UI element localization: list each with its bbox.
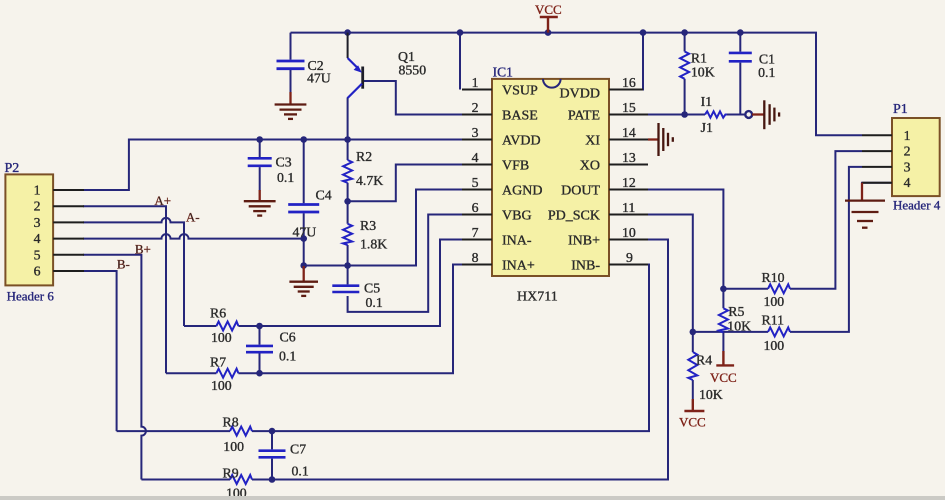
IC pin numbers left: [472, 75, 479, 265]
svg-text:VSUP: VSUP: [502, 84, 538, 99]
svg-text:10K: 10K: [699, 387, 723, 402]
junction R3/C5/AGND: [344, 262, 351, 269]
svg-text:16: 16: [622, 75, 636, 90]
svg-text:15: 15: [622, 100, 636, 115]
wire C3 leads: [259, 140, 261, 191]
junction on rail at R1: [681, 29, 688, 36]
resistor R11 zigzag: [768, 327, 790, 336]
wire AVDD net (P2 pin1 up and across to IC pin3): [83, 140, 463, 191]
wire VSUP pin1 to rail: [459, 33, 461, 90]
wire C4 leads: [303, 140, 305, 267]
ground symbol sideways at PATE/J1: [752, 100, 779, 129]
wire R6 line to IC pin7 INA-: [184, 240, 463, 327]
svg-text:9: 9: [626, 250, 633, 265]
svg-text:INA+: INA+: [502, 259, 535, 274]
junction R8/C7: [269, 428, 276, 435]
IC1 left pin stubs 1-8: [462, 90, 492, 265]
wire C5 top lead: [347, 266, 349, 285]
junction AVDD at R2: [344, 136, 351, 143]
capacitor C6 plates: [246, 346, 273, 352]
svg-text:14: 14: [622, 125, 636, 140]
svg-text:0.1: 0.1: [277, 170, 294, 185]
svg-text:100: 100: [211, 330, 232, 345]
svg-text:1.8K: 1.8K: [360, 237, 387, 252]
capacitor C3 plates: [248, 158, 272, 166]
svg-text:DVDD: DVDD: [560, 87, 600, 102]
svg-text:XI: XI: [585, 134, 600, 149]
resistor R9 zigzag: [230, 475, 252, 484]
resistor R10 zigzag: [768, 284, 790, 293]
wire P2 pin4 line with hops to C4: [83, 234, 304, 239]
wire VFB net (R2/R3 junction to IC pin4): [348, 165, 463, 202]
svg-text:4: 4: [34, 231, 41, 246]
resistor R7 zigzag: [216, 369, 238, 378]
IC pin numbers right: [622, 75, 636, 265]
junction DOUT/R10/R5: [720, 286, 727, 293]
svg-text:C3: C3: [276, 155, 292, 170]
svg-text:2: 2: [34, 199, 41, 214]
wire C2 lead from rail: [290, 33, 292, 93]
wire A+ from P2 pin2: [83, 206, 166, 373]
junction ring right of C1 on PATE: [745, 111, 752, 118]
wire C1 vertical leads: [739, 33, 741, 115]
svg-text:0.1: 0.1: [758, 65, 775, 80]
svg-text:P2: P2: [5, 161, 20, 176]
wire B+ from P2 pin5 with hop over R8 line: [83, 255, 146, 480]
svg-text:100: 100: [223, 439, 244, 454]
svg-text:2: 2: [904, 144, 911, 159]
svg-text:R6: R6: [210, 306, 226, 321]
header P2 body: [5, 174, 53, 285]
svg-text:A-: A-: [186, 210, 200, 225]
svg-text:R1: R1: [691, 51, 707, 66]
wire R4 leads: [692, 332, 694, 399]
svg-text:0.1: 0.1: [366, 295, 383, 310]
svg-text:R2: R2: [356, 149, 372, 164]
svg-text:INB+: INB+: [568, 234, 600, 249]
svg-text:DOUT: DOUT: [561, 184, 600, 199]
svg-text:1: 1: [34, 183, 41, 198]
svg-text:1: 1: [472, 75, 479, 90]
resistor R5 zigzag: [719, 308, 728, 332]
svg-text:4: 4: [904, 175, 911, 190]
svg-text:6: 6: [34, 264, 41, 279]
P1 pin numbers: [904, 128, 911, 190]
svg-text:47U: 47U: [307, 71, 331, 86]
resistor R1 zigzag: [680, 52, 689, 79]
svg-text:R4: R4: [696, 353, 712, 368]
svg-text:B+: B+: [135, 242, 151, 257]
IC pin names left: [502, 84, 542, 274]
svg-text:0.1: 0.1: [279, 349, 296, 364]
wire VCC top rail: [291, 33, 863, 136]
svg-text:8550: 8550: [399, 63, 427, 78]
svg-text:12: 12: [622, 175, 636, 190]
svg-text:Header 6: Header 6: [7, 289, 55, 304]
svg-text:AGND: AGND: [502, 184, 542, 199]
junction R7/C6: [256, 370, 263, 377]
wire AGND net (IC pin5 down to C4/ground line): [304, 190, 463, 266]
wire DVDD pin16 up to rail: [609, 33, 643, 90]
wire PATE pin15 to R1 and C1: [609, 114, 745, 116]
wire Q1 base to pin2 BASE: [364, 81, 463, 115]
wire C6 leads: [259, 326, 261, 373]
svg-text:VCC: VCC: [535, 2, 562, 17]
wire R1 vertical leads: [684, 33, 686, 115]
svg-text:0.1: 0.1: [292, 464, 309, 479]
svg-text:4: 4: [472, 150, 479, 165]
svg-text:AVDD: AVDD: [502, 134, 541, 149]
svg-text:R7: R7: [210, 355, 226, 370]
svg-text:100: 100: [211, 378, 232, 393]
svg-text:VBG: VBG: [502, 209, 532, 224]
svg-text:8: 8: [472, 250, 479, 265]
resistor R2 zigzag: [343, 160, 352, 183]
svg-text:P1: P1: [893, 102, 908, 117]
wire C7 leads: [271, 431, 273, 479]
svg-text:13: 13: [622, 150, 636, 165]
junction on rail at pin16: [640, 29, 647, 36]
capacitor C1 plates: [729, 53, 752, 61]
P2 pin numbers: [34, 183, 41, 279]
wire R8 line to IC pin9 INB-: [117, 265, 649, 432]
svg-text:C7: C7: [290, 442, 306, 457]
resistor R6 zigzag: [216, 322, 238, 331]
junction AVDD at C3: [256, 136, 263, 143]
svg-text:I1: I1: [701, 94, 713, 109]
junction PD_SCK/R11/R4: [690, 329, 697, 336]
VCC power symbol under R4 (inverted): [684, 399, 704, 411]
header P1 body: [892, 118, 940, 196]
svg-text:R5: R5: [728, 304, 744, 319]
junction R2/R3/VFB: [344, 198, 351, 205]
svg-text:XO: XO: [580, 159, 600, 174]
wire A- from P2 pin3 with hop over A+: [83, 218, 184, 326]
svg-text:R8: R8: [223, 415, 239, 430]
svg-text:2: 2: [472, 100, 479, 115]
wire R5 leads: [722, 289, 724, 351]
svg-text:R3: R3: [360, 218, 376, 233]
svg-text:R9: R9: [223, 466, 239, 481]
junction on rail at C1: [737, 29, 744, 36]
header P2 pin stubs: [53, 190, 84, 271]
svg-text:VCC: VCC: [679, 415, 706, 430]
svg-text:10K: 10K: [727, 319, 751, 334]
wire VBG net (IC pin6 down to C5 bottom): [348, 215, 463, 312]
svg-text:5: 5: [34, 247, 41, 262]
wire B- from P2 pin6: [83, 271, 117, 431]
junction on rail at Q1 emitter: [344, 29, 351, 36]
svg-text:7: 7: [472, 225, 479, 240]
IC1 right pin stubs 16-9: [609, 90, 648, 265]
svg-text:HX711: HX711: [517, 290, 558, 305]
svg-text:3: 3: [904, 159, 911, 174]
svg-text:J1: J1: [701, 120, 713, 135]
svg-text:INB-: INB-: [571, 259, 600, 274]
svg-text:PD_SCK: PD_SCK: [548, 209, 600, 224]
wire R9 line to IC pin10 INB+: [141, 240, 668, 480]
wire P1 pin4 stub to ground: [861, 182, 892, 184]
junction R6/C6: [256, 323, 263, 330]
resistor R8 zigzag: [230, 427, 252, 436]
svg-text:B-: B-: [117, 257, 130, 272]
svg-text:VFB: VFB: [502, 159, 529, 174]
wire PD_SCK pin11 down to R11: [609, 215, 693, 332]
svg-text:11: 11: [622, 200, 635, 215]
svg-text:R10: R10: [762, 270, 785, 285]
wire R7 line to IC pin8 INA+: [166, 265, 463, 374]
svg-text:VCC: VCC: [710, 370, 737, 385]
transistor Q1 8550 PNP: [348, 33, 363, 98]
svg-text:5: 5: [472, 175, 479, 190]
svg-text:Header 4: Header 4: [893, 198, 941, 213]
junction C4 at pin4 line: [300, 235, 307, 242]
junction R1 bottom at PATE: [681, 111, 688, 118]
svg-text:4.7K: 4.7K: [356, 173, 383, 188]
svg-text:1: 1: [904, 128, 911, 143]
svg-text:C5: C5: [364, 281, 380, 296]
wire R10 line up to P1 pin2: [723, 151, 862, 289]
svg-text:10: 10: [622, 225, 636, 240]
svg-text:3: 3: [34, 215, 41, 230]
svg-text:R11: R11: [762, 313, 785, 328]
ground symbol below P1 pin4: [845, 183, 885, 228]
svg-text:IC1: IC1: [493, 65, 513, 80]
svg-text:47U: 47U: [293, 225, 317, 240]
svg-text:A+: A+: [154, 193, 171, 208]
wire Q1 collector to R2 to R3 to AGND line: [347, 98, 349, 266]
svg-text:10K: 10K: [691, 65, 715, 80]
VCC power symbol top: [540, 17, 558, 33]
resistor R4 zigzag: [688, 352, 697, 380]
svg-text:C6: C6: [280, 330, 296, 345]
capacitor C5 plates: [332, 286, 359, 292]
IC pin names right: [548, 87, 601, 274]
junction on rail at VSUP: [457, 29, 464, 36]
ground symbol under C2: [275, 92, 307, 119]
svg-text:100: 100: [764, 338, 785, 353]
capacitor C4 plates: [288, 205, 319, 213]
jumper J1 zigzag: [705, 111, 727, 117]
svg-text:INA-: INA-: [502, 234, 532, 249]
bottom gray strip: [0, 496, 945, 500]
capacitor C7 plates: [259, 451, 286, 458]
svg-text:BASE: BASE: [502, 109, 538, 124]
ground symbol under C3: [244, 190, 276, 216]
ground symbol sideways at XI pin14: [648, 123, 673, 156]
wire DOUT pin12 down to R10: [609, 190, 723, 289]
junction AVDD at C4: [300, 136, 307, 143]
svg-text:6: 6: [472, 200, 479, 215]
svg-text:C4: C4: [316, 188, 332, 203]
svg-text:PATE: PATE: [568, 109, 600, 124]
IC1 HX711 body: [492, 79, 609, 276]
header P1 pin stubs: [862, 135, 892, 182]
svg-text:100: 100: [764, 294, 785, 309]
svg-text:3: 3: [472, 125, 479, 140]
VCC power symbol under R5 (inverted): [716, 351, 734, 365]
junction on rail at VCC symbol: [545, 29, 552, 36]
ground symbol under C4: [289, 266, 318, 296]
junction R9/C7: [269, 476, 276, 483]
wire R11 line up to P1 pin3: [693, 167, 862, 332]
junction C4/ground at AGND line: [300, 262, 307, 269]
capacitor C2 plates: [277, 61, 305, 69]
resistor R3 zigzag: [343, 224, 352, 245]
